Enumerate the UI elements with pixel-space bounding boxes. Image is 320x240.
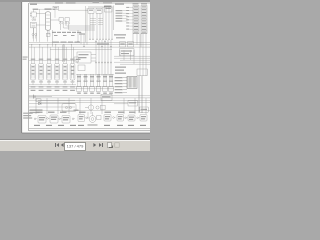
wire run y10 xyxy=(58,9,88,11)
switch row rail 3 xyxy=(29,88,114,90)
label text lighting xyxy=(103,2,112,3)
viewer canvas background xyxy=(0,0,150,150)
wire tall comp to bus xyxy=(47,37,49,42)
connector label list xyxy=(116,10,128,22)
label x33 y8 xyxy=(33,9,39,10)
right verticals lower xyxy=(139,76,142,113)
wire run y30 xyxy=(69,29,95,31)
relay box K3 xyxy=(120,42,126,47)
alternator connector strip CN1 xyxy=(45,12,50,30)
legend diode symbol xyxy=(39,102,42,104)
bus line lower 2 xyxy=(29,97,150,99)
ignition switch cluster xyxy=(59,18,70,24)
alternator tail lead xyxy=(46,30,50,37)
bus line partial xyxy=(50,48,112,50)
long wire y102 xyxy=(38,101,150,103)
wire pair x62-64 xyxy=(63,45,65,63)
junction dots on buses xyxy=(78,41,112,47)
wire battery to alternator xyxy=(36,13,45,15)
harness column groups xyxy=(77,74,113,94)
wire top center horizontal xyxy=(88,6,112,8)
switch row bottom rail xyxy=(29,84,76,86)
wires ignition drops xyxy=(60,24,68,30)
flasher relay K2 xyxy=(77,52,96,63)
bus line lower 1 xyxy=(29,95,150,97)
wire alternator to switch xyxy=(51,19,59,21)
harness verticals x78-84 xyxy=(78,30,84,47)
wire battery to bus xyxy=(33,28,35,42)
label text 12 xyxy=(93,1,100,2)
drawing frame bottom border xyxy=(29,130,150,132)
bottom labels row xyxy=(34,125,146,126)
legend wire y103 xyxy=(29,103,75,105)
page left edge xyxy=(21,2,23,133)
wire code label row xyxy=(52,32,81,36)
harness vertical x113 xyxy=(113,6,115,31)
title text SP25 xyxy=(55,2,63,4)
white schematic page xyxy=(22,2,150,133)
connector table labels top xyxy=(133,3,148,4)
zoom tool icon xyxy=(107,142,113,148)
wire run y24 xyxy=(67,25,95,27)
right harness verticals xyxy=(140,34,146,76)
wiper motor M2 xyxy=(85,105,105,110)
wire long y110 xyxy=(29,109,150,111)
starter motor M1 xyxy=(32,17,36,20)
bottom row terminal circles xyxy=(34,117,139,120)
previous page button xyxy=(60,143,64,147)
switch row top rail xyxy=(29,60,76,62)
relay module box xyxy=(120,49,135,56)
bottom feeder wires xyxy=(36,98,146,114)
small box x74 y57 xyxy=(74,57,78,62)
drawing frame top border xyxy=(29,2,150,4)
relay box K7 xyxy=(105,6,113,12)
label row center y42 xyxy=(52,42,80,43)
switch units S1-S6 xyxy=(31,64,75,85)
last page button xyxy=(99,143,103,147)
solenoid contacts xyxy=(32,28,37,39)
page bottom edge xyxy=(22,132,150,134)
label battery area xyxy=(30,4,37,5)
table cell T2 xyxy=(140,107,149,112)
drawing frame left border xyxy=(28,3,30,131)
page number field xyxy=(64,142,86,151)
title text harness xyxy=(66,2,76,4)
legend wire y96 xyxy=(29,96,52,98)
label alternator xyxy=(45,8,52,9)
first page button xyxy=(55,143,59,147)
connector table column B xyxy=(141,6,147,34)
next page button xyxy=(93,143,97,147)
wire center bottom xyxy=(76,74,114,76)
wire node drop xyxy=(36,28,38,42)
connector circles on center verticals xyxy=(95,62,111,63)
margin note text block xyxy=(23,113,33,119)
label x75 y58 text xyxy=(76,59,81,60)
harness vertical wires center xyxy=(96,40,111,76)
dashed enclosure xyxy=(62,104,79,112)
terminal circles y39 xyxy=(90,39,113,40)
legend wire y100 xyxy=(29,99,75,101)
bottom relay row boxes xyxy=(38,115,147,124)
switch unit labels top xyxy=(31,59,75,60)
junction box J2 xyxy=(137,69,147,75)
legend fuse symbol xyxy=(36,99,41,102)
left harness verticals x85-87 xyxy=(86,6,88,45)
right bus bundle xyxy=(114,56,150,64)
bottom labels above boxes xyxy=(36,112,136,113)
bus line ACC xyxy=(29,44,150,46)
terminal list right xyxy=(115,77,127,93)
window top edge xyxy=(0,0,150,2)
bottom connector wire xyxy=(29,128,150,130)
top right header text xyxy=(115,4,124,5)
wire to tall connector xyxy=(36,24,45,26)
bus drop wires xyxy=(31,44,73,63)
junction table box xyxy=(101,94,112,100)
label center wires xyxy=(97,43,109,44)
wire right y103 xyxy=(114,103,128,105)
relay box K6 xyxy=(96,8,102,13)
wires top center verticals xyxy=(90,7,112,40)
label text 2nd row xyxy=(104,6,111,7)
pin tick rows xyxy=(90,19,103,25)
relay box K5 xyxy=(88,8,94,13)
wire drop x52.5 xyxy=(52,30,54,47)
table cell T1 xyxy=(128,100,137,106)
right text rows xyxy=(115,67,126,74)
switch row rail 2 xyxy=(29,86,114,88)
switch labels row xyxy=(31,86,75,91)
bus line B+ xyxy=(29,41,150,43)
wiper motor assembly M3 xyxy=(88,112,102,126)
label relays row2 xyxy=(116,37,125,38)
page fit icon xyxy=(114,142,120,148)
table lead ticks xyxy=(126,7,133,30)
label relays xyxy=(114,34,126,35)
resistor pack dense block xyxy=(127,76,137,88)
margin note small xyxy=(23,57,28,60)
relay K3 K4 lead wires xyxy=(120,50,134,64)
relay box K4 xyxy=(128,42,134,47)
label near verticals xyxy=(79,33,85,34)
legend text rows xyxy=(30,109,43,113)
wire run y28 xyxy=(64,27,95,29)
fusible link box FL xyxy=(31,22,37,28)
long wire y100 xyxy=(38,100,150,102)
legend battery symbol xyxy=(33,95,35,99)
relay bank feeder wires xyxy=(133,33,141,47)
wire battery top feed xyxy=(34,9,55,42)
connector table column A xyxy=(133,6,139,34)
legend wire y107 xyxy=(29,106,75,108)
bus line IG xyxy=(29,46,150,48)
diode block D1 xyxy=(78,65,85,71)
battery B1 xyxy=(30,10,36,18)
fuse F1 box xyxy=(53,6,58,10)
